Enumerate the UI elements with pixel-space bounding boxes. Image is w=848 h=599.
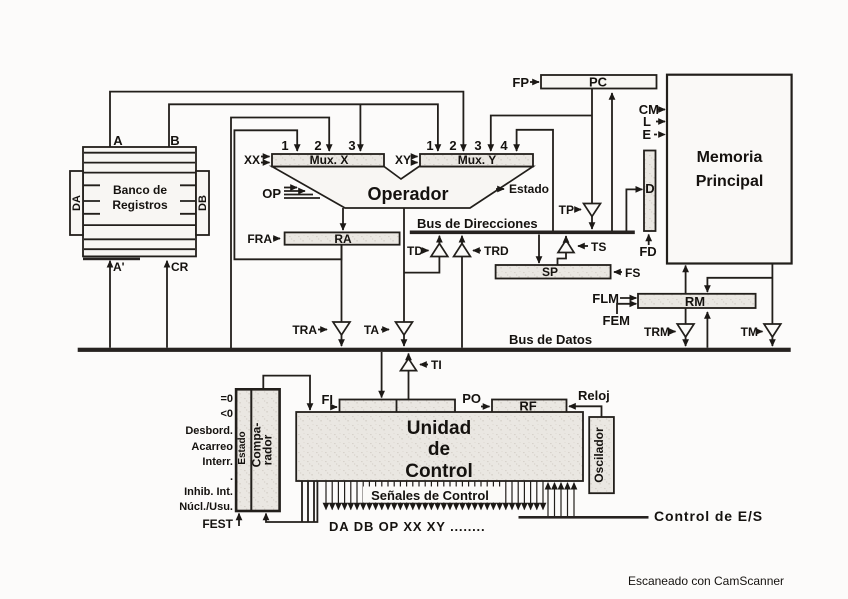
svg-text:Control de E/S: Control de E/S	[654, 508, 763, 524]
wire Operador output to TA	[403, 208, 405, 322]
svg-text:2: 2	[449, 138, 456, 153]
label CM	[639, 102, 665, 117]
wire Unidad to comparador FEST return	[266, 481, 317, 522]
wire PC down to TP	[591, 89, 593, 204]
svg-text:Estado: Estado	[237, 431, 248, 464]
wire bus de datos to I register	[381, 352, 383, 398]
buffer TD	[407, 236, 448, 258]
wire RA to TRA	[341, 245, 343, 322]
SP register	[496, 265, 611, 279]
label FEST with up arrow	[202, 514, 239, 532]
svg-text:Registros: Registros	[112, 198, 168, 212]
svg-text:TI: TI	[431, 358, 442, 372]
label L	[643, 114, 665, 129]
svg-text:Mux. Y: Mux. Y	[458, 153, 496, 167]
svg-text:Mux. X: Mux. X	[310, 153, 349, 167]
señales de control down lines	[326, 481, 543, 510]
svg-text:DA: DA	[71, 195, 83, 211]
svg-text:A': A'	[113, 260, 125, 274]
svg-text:TD: TD	[407, 244, 423, 258]
svg-text:FLM: FLM	[592, 291, 619, 306]
wire Operador to RA	[342, 208, 344, 230]
svg-text:TRM: TRM	[644, 325, 670, 339]
svg-text:PO: PO	[462, 391, 481, 406]
DB side box	[196, 171, 209, 235]
buffer TI	[401, 354, 442, 400]
svg-text:FS: FS	[625, 266, 640, 280]
RA register	[285, 232, 400, 246]
svg-text:B: B	[170, 133, 179, 148]
Oscilador box	[589, 417, 614, 493]
svg-text:Desbord.: Desbord.	[185, 425, 233, 437]
label FLM	[592, 291, 636, 306]
svg-text:XX: XX	[244, 153, 260, 167]
wire PC to Mux Y input 3	[491, 116, 592, 152]
svg-text:Escaneado con CamScanner: Escaneado con CamScanner	[628, 574, 784, 588]
svg-text:TS: TS	[591, 240, 606, 254]
label XY with arrows	[395, 153, 418, 167]
svg-text:DA DB OP XX XY ........: DA DB OP XX XY ........	[329, 519, 485, 534]
svg-text:3: 3	[474, 138, 481, 153]
wire RA loop to Mux X input 1	[234, 130, 341, 259]
svg-text:TA: TA	[364, 323, 379, 337]
svg-text:=0: =0	[220, 393, 233, 405]
buffer TRM	[644, 324, 694, 346]
Operador trapezoid	[272, 167, 533, 209]
wire branch Memoria to RM top	[707, 278, 772, 292]
wire branch B to Mux X input 3	[359, 104, 361, 151]
label XX with arrows	[244, 153, 270, 167]
svg-text:D: D	[645, 181, 654, 196]
Unidad de Control box	[296, 412, 583, 482]
svg-text:Reloj: Reloj	[578, 388, 610, 403]
label FI	[321, 392, 337, 407]
wire B to Mux Y input 1	[169, 104, 438, 151]
comparador top wire to Unidad	[263, 376, 310, 410]
buffer TS	[558, 236, 607, 265]
mux Y box	[420, 153, 533, 167]
RF register	[492, 399, 567, 414]
svg-text:FEM: FEM	[603, 313, 630, 328]
svg-text:SP: SP	[542, 265, 558, 279]
svg-text:Principal: Principal	[696, 173, 764, 190]
svg-text:FRA: FRA	[247, 232, 272, 246]
label E dashed	[642, 127, 665, 142]
svg-text:Operador: Operador	[367, 184, 448, 204]
wire bus de direcciones up to PC	[611, 93, 613, 231]
register bank bottom thick line	[83, 258, 140, 261]
wire bus de direcciones to D	[626, 189, 642, 231]
buffer TP	[559, 203, 601, 229]
svg-text:Inhib. Int.: Inhib. Int.	[184, 486, 233, 498]
wire A' from bus de datos	[109, 261, 111, 348]
wire bus de direcciones to Mux Y input 4	[517, 130, 553, 231]
wire A to Mux Y input 2	[110, 92, 463, 151]
label FS	[614, 266, 640, 280]
buffer TRA	[292, 322, 350, 346]
label OP with input lines	[262, 186, 320, 201]
label FP	[512, 75, 539, 90]
buffer TA	[364, 322, 413, 346]
wire Memoria down to TM and branch to RM	[771, 264, 773, 325]
svg-text:Interr.: Interr.	[202, 456, 233, 468]
svg-text:<0: <0	[220, 408, 233, 420]
wire RM up to Memoria	[685, 266, 687, 294]
label PO	[462, 391, 489, 407]
svg-text:CR: CR	[171, 260, 189, 274]
Bus de Direcciones bar	[410, 231, 635, 235]
svg-text:TRA: TRA	[292, 323, 317, 337]
svg-text:RA: RA	[334, 232, 352, 246]
svg-text:A: A	[113, 133, 123, 148]
svg-text:2: 2	[314, 138, 321, 153]
svg-text:1: 1	[281, 138, 288, 153]
wire bus de direcciones to SP	[538, 235, 540, 264]
I register	[340, 400, 456, 413]
DA side box	[70, 171, 83, 235]
svg-text:rador: rador	[261, 434, 275, 465]
mux X box	[272, 153, 384, 167]
control de E/S up arrows	[548, 483, 574, 517]
wire Operador branch to TD	[404, 257, 439, 273]
señales de control label	[363, 487, 503, 504]
svg-text:DB: DB	[197, 195, 209, 211]
wire bus de datos to Mux X input 2	[231, 118, 329, 349]
Estado output arrow	[496, 182, 549, 196]
svg-text:FD: FD	[639, 244, 656, 259]
RM register	[638, 294, 756, 309]
control lines group A	[302, 481, 314, 522]
svg-text:Memoria: Memoria	[697, 149, 763, 166]
svg-text:FP: FP	[512, 75, 529, 90]
svg-text:Acarreo: Acarreo	[191, 441, 233, 453]
register bank box	[83, 147, 196, 256]
svg-text:.: .	[230, 471, 233, 483]
wire Oscilador to RF	[569, 406, 602, 417]
svg-text:E: E	[642, 127, 651, 142]
svg-text:FEST: FEST	[202, 517, 233, 531]
svg-text:3: 3	[348, 138, 355, 153]
svg-text:Estado: Estado	[509, 182, 549, 196]
svg-text:Control: Control	[405, 461, 473, 482]
Bus de Datos bar	[78, 348, 791, 352]
wire bus de datos up to RM	[706, 312, 708, 348]
control de E/S line	[519, 516, 649, 519]
wire RM down to TRM	[685, 308, 687, 324]
Comparador box	[236, 389, 280, 511]
wire CR from bus de datos	[166, 261, 168, 348]
svg-text:Bus de Direcciones: Bus de Direcciones	[417, 216, 538, 231]
svg-text:Núcl./Usu.: Núcl./Usu.	[179, 501, 233, 513]
buffer TM	[741, 324, 781, 346]
svg-text:RM: RM	[685, 294, 705, 309]
svg-text:TM: TM	[741, 325, 758, 339]
svg-text:Oscilador: Oscilador	[592, 427, 606, 483]
svg-text:Señales de Control: Señales de Control	[371, 488, 489, 503]
D register	[644, 151, 656, 232]
svg-text:PC: PC	[589, 75, 608, 90]
svg-text:FI: FI	[321, 392, 333, 407]
label FD with arrow into D	[639, 235, 656, 260]
buffer TRD with wire to bus de datos	[454, 236, 509, 348]
label FRA	[247, 232, 280, 246]
PC register	[541, 75, 657, 90]
label FEM	[603, 304, 637, 328]
svg-text:Unidad: Unidad	[407, 418, 471, 439]
svg-text:TP: TP	[559, 203, 574, 217]
svg-text:4: 4	[500, 138, 508, 153]
svg-text:de: de	[428, 439, 450, 460]
svg-text:XY: XY	[395, 153, 411, 167]
svg-text:TRD: TRD	[484, 244, 509, 258]
svg-text:Banco de: Banco de	[113, 183, 167, 197]
svg-text:Bus de Datos: Bus de Datos	[509, 332, 592, 347]
svg-text:OP: OP	[262, 186, 281, 201]
svg-text:1: 1	[426, 138, 433, 153]
Memoria Principal box	[667, 75, 792, 264]
